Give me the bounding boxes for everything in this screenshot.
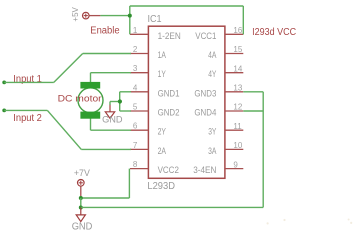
faint speck [267,222,269,224]
svg-text:13: 13 [233,84,242,93]
pin 11 stub [225,129,243,131]
svg-text:IC1: IC1 [148,14,162,25]
svg-text:15: 15 [233,45,242,54]
svg-text:2A: 2A [158,146,167,157]
wire tee to motor ground [110,101,120,103]
svg-text:4A: 4A [208,50,217,61]
svg-text:GND: GND [72,221,93,232]
wire top horizontal to VCC1 [130,5,244,7]
pin 5 stub [130,110,148,112]
junction node at +5V [128,14,132,18]
svg-text:10: 10 [233,141,242,150]
wire Input 2 to pin 7 [81,148,131,150]
svg-text:+7V: +7V [74,168,91,179]
svg-text:4: 4 [133,83,138,92]
faint speck [348,219,350,221]
svg-text:GND3: GND3 [194,88,216,99]
svg-text:I293d VCC: I293d VCC [252,27,296,38]
svg-text:3: 3 [133,64,138,73]
svg-text:VCC1: VCC1 [195,31,216,42]
svg-text:16: 16 [233,26,242,35]
IC U1 body (L293D) [148,26,225,178]
svg-text:GND4: GND4 [194,108,216,119]
wire pin 12 to GND [243,110,263,112]
wire junction down to pin 1 [129,6,131,34]
wire Input 2 horizontal [4,109,47,111]
svg-text:1A: 1A [158,50,167,61]
wire pin 13 to GND [243,91,263,93]
svg-text:3-4EN: 3-4EN [193,165,216,176]
wire Input 1 to pin 2 [83,53,131,55]
pin 7 stub [130,148,148,150]
svg-text:2: 2 [133,45,138,54]
pin 4 stub [130,91,148,93]
wire down to pin 16 [242,6,244,34]
wire Input 2 diagonal [47,110,81,149]
svg-text:1-2EN: 1-2EN [158,31,181,42]
junction node +7V [79,196,83,200]
pin 13 stub [225,91,243,93]
svg-text:14: 14 [233,64,242,73]
junction node GND1-GND2 [118,99,122,103]
supply +5V symbol [83,12,101,19]
svg-text:Enable: Enable [90,26,119,37]
svg-text:GND: GND [102,115,123,126]
pin 6 stub [130,129,148,131]
svg-text:L293D: L293D [147,181,175,192]
pin 14 stub [225,72,243,74]
svg-text:8: 8 [133,160,138,169]
pin 1 stub [130,33,148,35]
svg-text:GND1: GND1 [158,88,180,99]
wire GND bottom horizontal [81,206,263,208]
ground symbol near motor [105,105,114,119]
svg-text:9: 9 [233,160,238,169]
wire Input 1 diagonal [54,54,83,83]
wire +5V to junction [100,15,129,17]
svg-text:2Y: 2Y [158,127,167,138]
svg-text:3Y: 3Y [208,127,217,138]
svg-text:+5V: +5V [70,7,80,22]
svg-text:1Y: 1Y [158,69,167,80]
node Input 1 endpoint [2,81,6,85]
pin 8 stub [130,168,148,170]
pin 9 stub [225,168,243,170]
pin 12 stub [225,110,243,112]
pin 16 stub [225,33,243,35]
node Input 2 endpoint [2,109,6,113]
pin 2 stub [130,53,148,55]
supply +7V symbol [78,180,85,199]
svg-text:5: 5 [133,103,138,112]
svg-text:Input 1: Input 1 [13,74,42,85]
faint speck [283,219,285,221]
motor M1 (DC motor) [78,82,103,119]
pin 10 stub [225,148,243,150]
wire motor top to pin 3 [90,73,92,83]
svg-text:12: 12 [233,103,242,112]
svg-text:VCC2: VCC2 [158,165,179,176]
ground symbol bottom [76,208,85,222]
wire GND right vertical [262,92,264,208]
svg-text:11: 11 [233,122,242,131]
svg-text:GND2: GND2 [158,108,180,119]
wire between junction nodes [80,198,82,208]
svg-text:6: 6 [133,122,138,131]
wire motor bottom to pin 6 [90,119,92,131]
svg-text:Input 2: Input 2 [13,113,42,124]
wire GND1-GND2 vertical link [119,92,121,111]
faint speck [350,222,352,224]
wire Input 1 horizontal [4,81,54,83]
svg-text:DC motor: DC motor [58,94,102,105]
wire +7V to pin 8 [81,197,130,199]
pin 3 stub [130,72,148,74]
svg-text:7: 7 [133,141,138,150]
svg-text:3A: 3A [208,146,217,157]
svg-text:1: 1 [133,26,138,35]
pin 15 stub [225,53,243,55]
junction node GND bottom [79,206,83,210]
svg-text:4Y: 4Y [208,69,217,80]
